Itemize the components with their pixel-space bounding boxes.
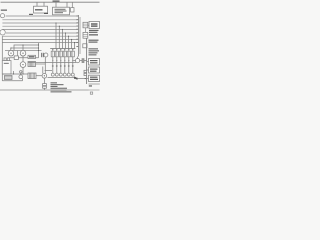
junction dot filament2 (22, 73, 23, 74)
IF can row (51, 51, 74, 57)
legend row 3 (51, 86, 58, 87)
choke inner line 2 (5, 77, 13, 79)
meter box label (29, 56, 35, 57)
output box D (89, 59, 100, 66)
wire bus 8 (2, 38, 77, 40)
right top box B text (91, 23, 98, 24)
junction dot V3 tick (10, 47, 11, 48)
right mid text row2 (89, 42, 98, 43)
right mid text row1 (89, 40, 99, 41)
ground bus wire (28, 62, 76, 64)
wire into field coil (74, 60, 76, 62)
legend row 1 (51, 82, 58, 83)
socket box C (83, 32, 88, 38)
lamp return wire (48, 77, 75, 79)
box E text row2 (90, 71, 97, 72)
legend row 5 (51, 90, 67, 91)
IF can 3 (59, 51, 62, 57)
tube V4 bottom tick (22, 56, 24, 58)
T2 hatch (29, 73, 34, 79)
electrolytic stack C4 (84, 70, 87, 72)
left label text (1, 10, 7, 11)
speaker note text row3 (89, 52, 98, 53)
tick to filament (13, 71, 15, 74)
capacitor C1 plates (41, 53, 43, 57)
wire bus 9 (2, 42, 77, 44)
T1 terminal bump 2 (7, 58, 9, 61)
ground stub ticks (53, 63, 73, 67)
legend row 2 (51, 84, 64, 85)
top bus wire (1, 1, 100, 3)
pilot tick (20, 73, 22, 75)
dial lamp wire stub (45, 70, 52, 72)
small box on wire (14, 56, 18, 60)
nested corner wire 2 (11, 48, 39, 51)
IF can top dots (52, 49, 73, 50)
right vertical into lower section (86, 39, 88, 85)
output transformer T2 (28, 73, 36, 79)
tube V4 (20, 50, 26, 56)
choke box (5, 76, 13, 80)
electrolytic stack C4b (84, 73, 87, 75)
chassis rule right lighter (89, 89, 100, 91)
tuner box U1 (53, 7, 70, 15)
IF can 2 (55, 51, 58, 57)
stub to box D (87, 61, 89, 63)
wire T2 to V6 (36, 75, 42, 77)
tuner box label row3 (55, 12, 64, 13)
IF can center lines (53, 51, 73, 57)
IF can 6 (71, 51, 74, 57)
speaker wire (74, 78, 89, 80)
junction dot (65, 32, 66, 33)
wire A to C vertical (84, 28, 86, 33)
tube V5 bottom tick (22, 67, 24, 74)
tube V6 electrode (44, 75, 45, 76)
tube V5 (20, 62, 26, 68)
box D text row2 (90, 62, 98, 63)
filament wire (2, 73, 28, 75)
lamp return arrow (74, 76, 77, 78)
IF can 5 (67, 51, 70, 57)
wire bus 7 (2, 35, 77, 37)
av vertical wire (38, 43, 40, 58)
speaker wire arrow (75, 78, 78, 80)
lower filament wire (2, 80, 22, 82)
electrolytic cap C2 (43, 84, 47, 86)
tube V3 (8, 50, 14, 56)
small bottom mark (90, 92, 92, 94)
V6 cathode drop (43, 78, 45, 84)
junction dot (68, 36, 69, 37)
wire bus 6 (6, 32, 78, 34)
socket box A line1 (83, 23, 88, 25)
coil box L1 label (35, 9, 43, 10)
label above bus right (44, 13, 48, 14)
tube V2 (0, 30, 5, 35)
right bottom label (89, 85, 92, 86)
junction dot (59, 26, 60, 27)
chassis ground rule (0, 89, 89, 91)
staircase drop 2 (58, 26, 60, 48)
terminal arrow ticks (76, 16, 78, 47)
dial lamps (51, 73, 74, 76)
pilot lamp circle (19, 75, 23, 79)
choke inner line 1 (5, 76, 13, 78)
socket box D2 (83, 44, 87, 48)
staircase drop 4 (65, 33, 67, 49)
tuner box label row1 (55, 9, 66, 10)
box F text row2 (90, 79, 98, 80)
stub to box E (87, 69, 89, 71)
pilot to wire tick (22, 79, 24, 81)
wire tick to tuner box (66, 2, 68, 7)
wire bus 1 (6, 15, 78, 17)
right annotation under box B row1 (89, 30, 99, 31)
nested corner wire 3 (5, 50, 42, 52)
tube V3 electrode (10, 53, 11, 54)
tube V5 tick (22, 58, 24, 62)
tube V6 (42, 74, 47, 79)
T1 label (4, 63, 9, 64)
filter choke T3 (28, 62, 36, 67)
speaker note text row2 (89, 50, 100, 51)
junction dot (55, 22, 56, 23)
field coil top tick (77, 57, 79, 59)
right bottom rule (89, 83, 100, 85)
cap to ground tick (43, 88, 45, 90)
nested corner wire 1 (14, 45, 39, 51)
wire bus 3 (2, 22, 77, 24)
right annotation text mid (89, 34, 98, 35)
IF can top ticks (53, 49, 73, 52)
junction dot (38, 47, 39, 48)
meter box (28, 55, 36, 58)
tube V4 top tick (22, 45, 24, 50)
junction dot filament (13, 73, 14, 74)
wire tick to coil box (43, 2, 45, 6)
junction dot (45, 62, 46, 63)
label above bus (29, 14, 33, 15)
legend row 4 (51, 88, 68, 89)
wire box A to B (88, 24, 89, 26)
power transformer T1 (2, 61, 11, 75)
trimmer box (71, 8, 74, 12)
output box E (89, 67, 100, 73)
trimmer tick (71, 2, 73, 7)
wire cap to vertical (84, 60, 87, 62)
socket box C line1 (83, 33, 88, 35)
legend row 6 (51, 91, 72, 92)
terminal strip vertical left (77, 15, 79, 57)
pilot small circle (20, 71, 22, 73)
staircase drop 1 (55, 23, 57, 49)
rectifier drop wires (42, 67, 44, 74)
speaker note text row4 (89, 54, 97, 55)
box F text row1 (90, 77, 98, 78)
wire coil to cap (80, 60, 83, 62)
socket box A line2 (83, 25, 88, 27)
junction dot (38, 44, 39, 45)
box D text row1 (90, 60, 98, 61)
tube V5 electrode (22, 64, 23, 65)
IF can bottom ticks (53, 57, 73, 63)
capacitor C3 plates (81, 58, 83, 63)
wire bus 2 (2, 19, 77, 21)
output box F (89, 75, 100, 81)
field coil circle (76, 59, 80, 63)
junction dot V4 tick (22, 44, 23, 45)
tube V1 (0, 14, 4, 18)
box E text row1 (90, 69, 98, 70)
IF can 4 (63, 51, 66, 57)
socket box C line2 (83, 35, 88, 37)
junction dot (62, 29, 63, 30)
tuner box label row2 (55, 11, 67, 12)
right top box B (89, 22, 100, 29)
left vertical wire (1, 36, 3, 81)
speaker note text row1 (89, 48, 99, 49)
staircase drop 5 (68, 36, 70, 48)
junction dot (38, 50, 39, 51)
wire tick to coil box (36, 2, 38, 6)
junction dot (74, 42, 75, 43)
tube V4 electrode (22, 53, 23, 54)
right annotation under box B row2 (89, 32, 98, 33)
lamp circle P1 (44, 53, 48, 57)
wire tick to tuner box (55, 2, 57, 7)
ground stub arrow dots (52, 66, 74, 67)
wire under tubes (8, 57, 39, 59)
coil box L1 (34, 6, 48, 13)
right top box B text2 (91, 25, 98, 26)
junction dot on speaker wire (85, 78, 86, 79)
socket box A (83, 22, 88, 28)
IF can 1 (51, 51, 54, 57)
T1 terminal bump 1 (4, 58, 6, 61)
T3 hatch (29, 62, 34, 67)
terminal strip vertical right (79, 17, 81, 54)
wire bus 5 (2, 28, 77, 30)
staircase drop 7 (74, 43, 76, 49)
staircase drop 6 (71, 39, 73, 48)
antenna label (53, 1, 60, 2)
wire T3 to vertical (36, 63, 46, 65)
staircase drop 3 (61, 29, 63, 48)
lamp ticks above (53, 67, 73, 74)
wire bus 4 (2, 25, 77, 27)
IF bottom tick dots (52, 60, 73, 61)
junction dot (71, 39, 72, 40)
IF can header wire (50, 48, 75, 50)
electrolytic cap C2b (43, 86, 47, 88)
